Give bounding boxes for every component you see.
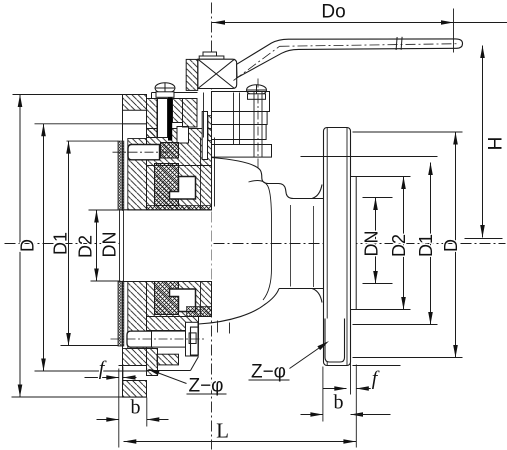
barrel silhouette [249,181,272,301]
gland plate left edge [151,93,153,99]
svg-text:D1: D1 [416,234,436,257]
bonnet plates right view [212,79,272,207]
extension line right flange back [322,367,324,422]
dimension Do [212,2,507,53]
extension line right flange face [350,363,352,395]
right bonnet bolt right edge [261,92,263,158]
ref line D2 right bottom [353,309,411,311]
socket line 2 [123,210,125,282]
Do extension line [453,9,455,53]
bore top edge [120,209,212,211]
cap lower band hatched [123,349,147,366]
extension line right raised face [355,365,357,448]
right bolt axis [257,79,259,169]
socket line 1 [119,210,121,282]
bonnet neck line 2 [239,93,241,145]
neck top line [293,198,324,200]
dimension H [465,46,507,239]
flange face line [346,128,348,366]
svg-text:D: D [18,239,38,252]
ref line flange bottom right [353,365,401,367]
dimension D2 left [66,141,95,345]
ref line D1 left bottom [35,370,149,372]
bonnet mid column hatched [173,99,183,123]
stem nut large [199,56,224,59]
ref line D2 left bottom [61,345,119,347]
bonnet plate p4 [212,145,272,158]
svg-text:Do: Do [321,2,345,23]
svg-text:D1: D1 [51,232,71,255]
ball left edge upper [200,138,202,211]
lower seat ring cross-hatch [155,282,179,315]
neck tangent line 1 [290,205,292,287]
dimension D2 right [389,177,409,310]
body outline right side [191,158,294,356]
bottom bolt hole top edge [119,365,147,367]
dimension L [124,419,357,444]
dimension D1 left [41,124,70,371]
lower seat region hatched [147,282,212,317]
upper cap bolt white [128,145,160,160]
cap bolt B1 head [186,322,199,356]
dimension b right [301,392,391,417]
right bonnet bolt left edge [253,92,255,158]
ref line DN right top [363,197,393,199]
gasket strip lower crosshatch [118,282,124,347]
hub box [198,59,237,88]
upper seat region hatched [147,166,212,211]
cap bottom edge [147,370,191,372]
svg-text:b: b [334,392,344,414]
dimension D1 right [416,163,436,325]
ref line D right top [353,131,463,133]
ref line D left top / flange top [13,94,147,96]
gasket strip upper crosshatch [118,141,124,210]
valve body sectioned left half [111,59,212,397]
stem left column hatched upper [186,59,198,90]
extension line left raised face [118,369,120,448]
handle hub on stem [198,52,237,89]
left gland screw [155,83,175,98]
bonnet neck line [233,93,235,145]
dimension DN left [94,210,119,281]
dimension DN right [362,198,382,284]
bonnet left wall hatched [147,99,158,138]
ref line D1 left top [35,123,147,125]
label Z-phi right with leader [249,341,330,383]
cap bolt axis [111,338,206,340]
bonnet plate p1 [212,92,270,112]
svg-text:Z−φ: Z−φ [188,376,223,397]
upper seat ring cross-hatch [155,164,179,206]
cap lower mass hatched [128,282,147,349]
left flange bottom rim hatched [123,381,147,398]
svg-text:DN: DN [362,231,382,257]
bonnet plate p2 [212,112,268,125]
gland plate top line [152,92,198,94]
ref tick DN left top [89,209,119,211]
neck tangent line 2 [313,206,315,287]
dimension b left [97,397,169,422]
flange hub flare bottom [312,289,322,303]
body upper hatched band [147,129,212,166]
cap face line [122,95,124,398]
cap bolt B1 head detail [189,333,196,344]
ref line D1 right bottom [353,324,438,326]
neck bottom line [279,288,324,290]
upper seat retainer white piece [170,177,196,200]
centerline horizontal axis [5,243,506,245]
extension line left flange face [122,367,124,385]
stem shown solid black [168,91,172,141]
bore open passage [120,211,212,281]
stem nut small [203,52,217,56]
lower cap-bolt pocket [127,331,153,347]
extension line left flange back [146,398,148,427]
right flange side view [324,128,357,366]
cap upper band hatched [147,317,199,331]
dimension D left [18,95,38,398]
centerline vertical axis [211,3,213,450]
right raised face [351,177,357,310]
top bolt hole bottom edge [123,123,147,125]
svg-text:D: D [441,239,461,252]
bore bottom edge [120,281,212,283]
cap bolt B1 shank [152,331,186,347]
upper body ledge into neck [212,158,294,199]
svg-text:Z−φ: Z−φ [251,362,286,383]
seat face band [147,206,212,211]
bonnet plate p3 [212,125,267,140]
ref line D2 right top [353,176,411,178]
dimension D right [441,132,461,358]
handle lever [234,37,463,81]
right neck outline [279,185,324,303]
stem packing cross-hatch [161,143,179,159]
svg-text:H: H [486,137,507,151]
svg-text:D2: D2 [76,235,96,258]
sliver hatch left of CL [208,116,212,141]
right gland screw [247,85,267,100]
svg-text:b: b [131,397,141,419]
svg-text:L: L [216,419,229,443]
ball left edge lower [200,282,202,317]
cap upper mass hatched [128,139,147,211]
handle tick 2 [401,37,402,50]
svg-text:D2: D2 [389,234,409,257]
left flange top rim hatched [123,95,147,111]
flange chamfer line [326,128,328,366]
body bottom curve [199,289,280,325]
white step piece [177,127,189,144]
ref line D left bottom / flange bottom [12,396,147,398]
bolt hole at flange edge [325,319,345,363]
bonnet silhouette right of CL [214,138,216,207]
flange hub flare top [312,185,322,199]
ref line DN right bottom [363,283,393,285]
svg-text:DN: DN [100,232,120,258]
stem left column hatched lower [183,99,198,128]
ref line D1 right top [301,156,438,158]
dimension f right [323,368,380,391]
white column near CL [202,112,207,160]
gland plate bottom line [152,98,183,100]
cap rear column hatched [147,349,158,376]
ref line D right bottom [353,357,463,359]
cap plate right view [191,327,199,355]
handle tick 1 [396,37,397,50]
lower seat band crosshatch near CL [187,307,212,317]
ref line D2 left top [67,140,119,142]
upper cap bolt axis [113,151,171,153]
handle centerline [234,46,280,80]
H bottom tick [465,238,503,240]
block under cap bolt hatched [157,354,178,365]
ref tick DN left bottom [91,280,121,282]
dimension f left [85,358,137,380]
lower seat retainer white piece [170,289,196,312]
label Z-phi left with leader [147,369,227,397]
